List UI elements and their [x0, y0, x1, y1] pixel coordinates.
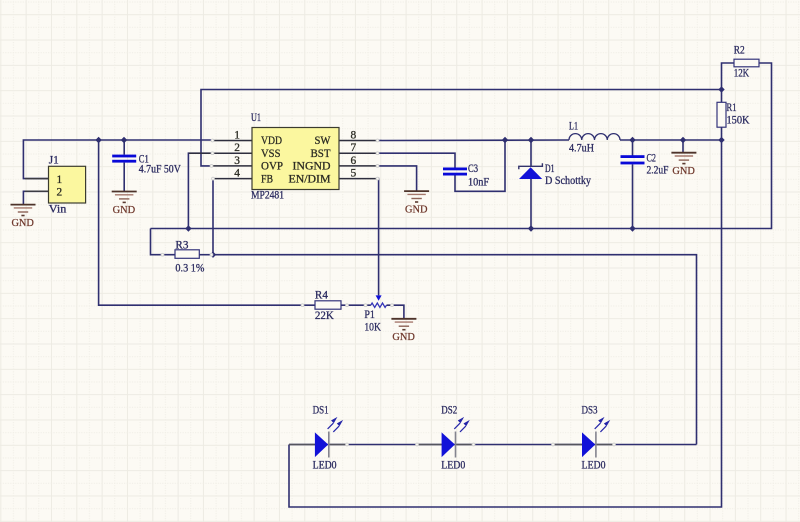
wire P1 right to ground	[387, 305, 404, 319]
potentiometer P1 zigzag	[371, 303, 387, 307]
svg-text:MP2481: MP2481	[251, 190, 284, 202]
diode D1 triangle	[519, 167, 542, 179]
ground symbol at J1	[11, 205, 36, 216]
svg-text:2: 2	[57, 187, 63, 199]
svg-text:7: 7	[351, 142, 357, 154]
svg-text:22K: 22K	[315, 310, 335, 322]
ground symbol at output rail	[671, 153, 696, 164]
svg-text:C2: C2	[647, 153, 657, 165]
resistor R1 body	[717, 102, 726, 127]
svg-text:10nF: 10nF	[468, 177, 489, 189]
wire J1 pin2 to ground	[23, 191, 48, 204]
svg-text:SW: SW	[315, 135, 331, 147]
svg-text:4.7uH: 4.7uH	[569, 142, 594, 154]
svg-text:D Schottky: D Schottky	[545, 175, 591, 187]
svg-text:LED0: LED0	[441, 459, 465, 471]
wire Vin net: J1 pin1 riser and top rail to U1 pin1	[23, 140, 214, 179]
LED DS2 arrows	[454, 418, 468, 432]
LED DS3 cathode bar	[595, 432, 597, 458]
junction node Vin/R4 branch	[95, 137, 101, 143]
wire GND stub on output rail	[682, 140, 684, 153]
svg-text:EN/DIM: EN/DIM	[289, 173, 331, 185]
wire U1 pin stubs (pin color)	[189, 141, 378, 179]
wire R3 right to FB junction	[199, 254, 213, 256]
junction node SW/C3 loop	[502, 137, 508, 143]
svg-text:DS1: DS1	[313, 405, 329, 417]
svg-text:C3: C3	[468, 163, 478, 175]
wire SW pin8 to L1	[377, 139, 569, 142]
wire R2 left to R1 top divider	[722, 63, 735, 102]
junction node VSS/return rail	[185, 225, 191, 231]
svg-text:VSS: VSS	[261, 148, 281, 160]
svg-text:L1: L1	[569, 121, 578, 133]
svg-text:2.2uF: 2.2uF	[647, 164, 669, 176]
resistor R4 body	[315, 301, 341, 309]
svg-text:12K: 12K	[734, 67, 750, 79]
potentiometer P1 wiper arrow	[376, 295, 382, 300]
resistor R2 body	[734, 59, 759, 67]
svg-text:0.3 1%: 0.3 1%	[175, 263, 204, 275]
wire C1 upper stub	[123, 140, 125, 155]
wire FB pin4 down to R3 right	[213, 179, 214, 255]
svg-text:3: 3	[234, 155, 240, 167]
inductor L1 coils	[569, 134, 620, 140]
connector J1 body	[49, 166, 86, 203]
junction node Vin/C1	[121, 137, 127, 143]
wire LED string row	[289, 444, 697, 446]
LED DS3 triangle	[582, 432, 595, 457]
ground symbol at P1	[391, 319, 416, 330]
wire J1 pin stubs (pin color)	[25, 179, 49, 192]
svg-text:LED0: LED0	[313, 459, 337, 471]
wire OVP net: pin3 up and top rail to R1/R2	[201, 90, 722, 166]
ground symbol at C1	[112, 192, 137, 203]
svg-text:VDD: VDD	[261, 135, 282, 147]
junction node out/R1 bottom	[718, 137, 724, 143]
LED DS1 arrows	[328, 418, 342, 432]
wire Vin branch down to R4	[99, 140, 315, 305]
svg-text:Vin: Vin	[49, 204, 67, 216]
svg-text:4.7uF 50V: 4.7uF 50V	[139, 164, 182, 176]
LED DS2 cathode bar	[455, 432, 457, 458]
wire R3 left leg from return rail	[151, 229, 176, 255]
svg-text:DS2: DS2	[441, 405, 457, 417]
svg-text:R2: R2	[734, 44, 745, 56]
ground symbol at U1 INGND	[404, 191, 429, 202]
diode D1 schottky cathode bar	[519, 163, 543, 169]
svg-text:4: 4	[234, 168, 240, 180]
svg-text:150K: 150K	[727, 115, 751, 127]
svg-text:6: 6	[351, 155, 357, 167]
svg-text:BST: BST	[311, 148, 331, 160]
capacitor C3 plates	[443, 168, 467, 176]
svg-text:P1: P1	[364, 309, 375, 321]
wire C1 lower stub to ground	[123, 163, 125, 192]
resistor R3 body	[175, 250, 199, 258]
capacitor C2 plates	[621, 155, 645, 164]
junction node D1 anode/return rail	[528, 225, 534, 231]
wire R4 right to P1 left	[341, 304, 371, 306]
svg-text:OVP: OVP	[261, 161, 283, 173]
wire D1 cathode stub	[530, 140, 532, 166]
wire LED pin spans (gray)	[289, 444, 614, 446]
wire EN/DIM pin5 down to P1 wiper	[377, 179, 379, 296]
wire output loop down to LED string anode	[289, 140, 722, 507]
junction node out/GND stub	[680, 137, 686, 143]
junction node R3/FB sense	[210, 252, 216, 258]
capacitor C1 plates	[112, 155, 136, 163]
svg-text:R4: R4	[315, 289, 328, 301]
wire BST pin7 to C3 loop	[377, 153, 455, 168]
junction node out/C2	[629, 137, 635, 143]
wire L1 right to R1 bottom	[620, 139, 722, 141]
LED DS1 triangle	[315, 432, 328, 457]
pin tip markers	[161, 139, 615, 446]
wire return rail y=228.5 up right side to R2	[151, 63, 772, 229]
junction node C2/return rail	[629, 225, 635, 231]
wire R1 bottom stub	[721, 127, 723, 140]
svg-text:J1: J1	[49, 154, 59, 166]
svg-text:INGND: INGND	[293, 161, 331, 173]
svg-text:LED0: LED0	[582, 459, 606, 471]
wire C2 lower stub to return rail	[632, 164, 634, 228]
svg-text:GND: GND	[392, 331, 415, 343]
svg-text:GND: GND	[113, 204, 136, 216]
junction node divider mid OVP	[718, 86, 724, 92]
svg-text:5: 5	[351, 168, 357, 180]
svg-text:8: 8	[351, 129, 357, 141]
wire INGND pin6 to ground	[377, 166, 417, 191]
junction node SW/D1	[528, 137, 534, 143]
svg-text:R3: R3	[175, 239, 188, 251]
wire FB sense line to LED string cathode	[213, 255, 697, 445]
wire VSS pin2 to return rail	[188, 153, 214, 228]
wire C2 upper stub	[632, 140, 634, 156]
svg-text:FB: FB	[261, 173, 273, 185]
wire D1 anode stub	[530, 179, 532, 229]
svg-text:R1: R1	[727, 102, 737, 114]
svg-text:D1: D1	[545, 163, 555, 175]
LED DS1 cathode bar	[328, 432, 330, 458]
svg-text:U1: U1	[251, 112, 261, 124]
svg-text:GND: GND	[11, 217, 34, 229]
wire C3 bottom loop to SW rail	[455, 140, 505, 191]
svg-text:DS3: DS3	[582, 405, 598, 417]
svg-text:GND: GND	[672, 165, 695, 177]
svg-text:2: 2	[234, 142, 240, 154]
LED DS2 triangle	[442, 432, 455, 457]
LED DS3 arrows	[595, 418, 609, 432]
svg-text:1: 1	[57, 174, 63, 186]
svg-text:GND: GND	[405, 204, 428, 216]
svg-text:10K: 10K	[364, 322, 381, 334]
svg-text:1: 1	[234, 129, 240, 141]
op-amp U1 body MP2481	[252, 128, 339, 190]
